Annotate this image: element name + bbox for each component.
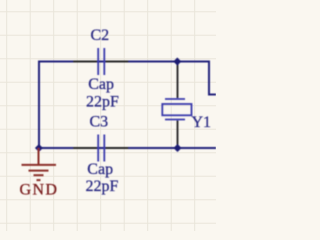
svg-text:C3: C3 [90,114,109,131]
svg-text:Y1: Y1 [192,114,212,131]
svg-text:C2: C2 [91,27,110,44]
svg-text:GND: GND [20,182,59,199]
svg-text:22pF: 22pF [86,178,119,195]
svg-text:22pF: 22pF [86,94,119,111]
svg-text:Cap: Cap [88,76,114,93]
svg-text:Cap: Cap [87,161,113,178]
